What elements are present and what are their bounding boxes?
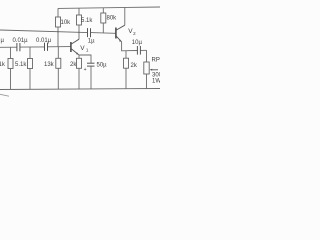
svg-text:2: 2 xyxy=(133,31,136,36)
svg-text:RP: RP xyxy=(152,58,160,64)
wire top supply rail xyxy=(58,7,160,8)
resistor R5 5.1k xyxy=(15,47,33,89)
capacitor C4 50µ electrolytic xyxy=(84,63,108,90)
svg-text:1µ: 1µ xyxy=(88,39,95,45)
node junction R1/line A xyxy=(57,31,59,33)
svg-text:50µ: 50µ xyxy=(97,63,108,69)
potentiometer RP xyxy=(144,50,163,88)
wire input line B xyxy=(0,46,70,49)
svg-text:5.1k: 5.1k xyxy=(81,18,93,24)
resistor R4 5.1k (label cut at left edge) xyxy=(0,47,13,89)
svg-text:+: + xyxy=(84,67,87,73)
wire V1 emitter to C4 xyxy=(79,55,91,63)
svg-text:2k: 2k xyxy=(70,62,77,68)
resistor R8 2k (V2 emitter) xyxy=(124,51,138,89)
capacitor C5 10µ xyxy=(132,40,143,55)
resistor R7 2k (V1 emitter) xyxy=(70,55,82,89)
wire rail corner drop to R1 xyxy=(57,8,59,17)
wire V2 emitter down and output line xyxy=(122,42,138,51)
node junction V1 collector/line A xyxy=(78,32,80,34)
svg-text:1: 1 xyxy=(86,48,89,53)
svg-text:µ: µ xyxy=(1,38,5,44)
svg-text:13k: 13k xyxy=(44,62,55,68)
svg-text:0.01µ: 0.01µ xyxy=(13,38,29,44)
svg-text:10µ: 10µ xyxy=(132,40,143,46)
svg-text:1W: 1W xyxy=(152,79,160,85)
resistor R3 80k xyxy=(101,8,117,33)
wire node line A (feedback/coupling line) xyxy=(0,30,116,33)
svg-text:10k: 10k xyxy=(61,20,72,26)
resistor R2 5.1k xyxy=(77,8,94,39)
svg-text:V: V xyxy=(80,45,85,52)
resistor R1 10k xyxy=(56,17,72,47)
svg-text:80k: 80k xyxy=(107,16,118,22)
resistor R6 13k xyxy=(44,47,61,89)
transistor V1 xyxy=(71,39,89,55)
svg-text:5.1k: 5.1k xyxy=(0,62,6,68)
svg-text:2k: 2k xyxy=(131,63,138,69)
svg-text:5.1k: 5.1k xyxy=(15,62,27,68)
capacitor C3 1µ xyxy=(88,28,96,44)
capacitor C1 0.01µ xyxy=(13,38,29,51)
wire bottom ground rail xyxy=(0,89,160,90)
svg-text:0.01µ: 0.01µ xyxy=(36,38,52,44)
capacitor C2 0.01µ xyxy=(36,38,52,51)
wire V2 collector to rail xyxy=(124,8,126,26)
wire stray mark bottom-left (cut by frame) xyxy=(0,94,9,96)
transistor V2 xyxy=(116,25,136,42)
